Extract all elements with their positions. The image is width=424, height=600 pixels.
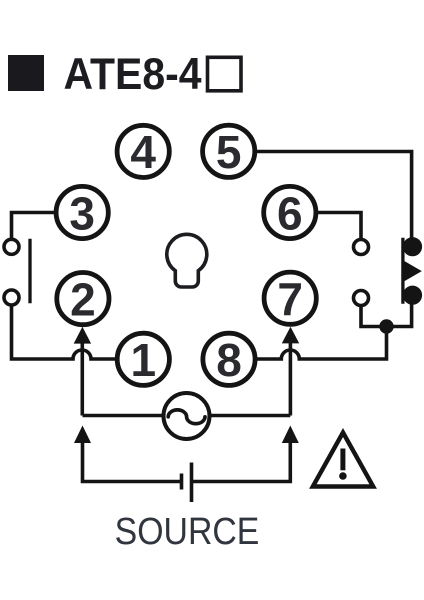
title empty square: [208, 57, 242, 91]
wire bottom rail pin8 to right riser with hop over pin7 arrow: [256, 330, 387, 359]
title text ATE8-4: [64, 49, 202, 99]
pin 4: [117, 125, 169, 178]
pin 3: [56, 186, 108, 239]
source arrow right: [282, 426, 299, 444]
svg-text:5: 5: [216, 126, 242, 178]
contact terminal circle upper-left (pin3): [4, 239, 19, 254]
arrow into pin 7: [289, 341, 293, 416]
svg-text:SOURCE: SOURCE: [115, 509, 260, 552]
battery short plate: [180, 474, 184, 490]
pin 7: [264, 272, 316, 325]
wire NO contact down to junction: [387, 300, 412, 327]
svg-text:4: 4: [130, 126, 156, 178]
arrow into pin 2: [81, 341, 85, 416]
battery long plate: [190, 463, 194, 503]
warning triangle: [313, 433, 373, 487]
wire pin5 to right contact: [256, 152, 412, 241]
source arrow left: [74, 426, 91, 444]
AC source circle: [164, 393, 210, 439]
pin 2: [57, 273, 109, 326]
svg-text:3: 3: [69, 187, 95, 239]
contact terminal circle upper-right (pin6): [354, 240, 369, 255]
pin 1: [117, 333, 169, 386]
relay contact bar right: [401, 238, 404, 304]
label SOURCE: [115, 509, 260, 552]
warning exclamation dot: [339, 472, 347, 480]
wire pin3 to left contact: [12, 213, 56, 239]
wire pin7 terminal to junction: [361, 307, 387, 327]
svg-text:6: 6: [277, 187, 303, 239]
warning exclamation bar: [340, 449, 345, 471]
svg-text:2: 2: [70, 273, 96, 325]
pin 6: [264, 186, 316, 239]
wire source left leg: [83, 441, 181, 482]
contact terminal circle lower-left (pin2): [4, 290, 19, 305]
svg-text:ATE8-4: ATE8-4: [64, 49, 202, 99]
wire AC loop top rail: [83, 414, 291, 418]
wire source right leg: [193, 441, 290, 482]
svg-text:1: 1: [131, 334, 157, 386]
socket keyhole center: [167, 234, 207, 287]
wire pin6 to NC terminal: [317, 213, 361, 239]
AC sine wave: [168, 410, 205, 424]
wire lower-left contact down to bottom rail with hop over pin2 arrow: [12, 306, 117, 359]
contact terminal circle lower-right (pin7): [354, 291, 369, 306]
svg-text:7: 7: [277, 273, 303, 325]
relay contact wiper triangle: [404, 261, 422, 281]
contact blade bar left: [28, 239, 31, 304]
relay contact dot upper: [403, 237, 422, 256]
relay contact dot lower: [403, 286, 422, 305]
title bullet square: [8, 55, 44, 91]
pin 8: [203, 333, 255, 386]
junction dot: [379, 319, 393, 333]
pin 5: [203, 125, 255, 178]
svg-text:8: 8: [216, 334, 242, 386]
